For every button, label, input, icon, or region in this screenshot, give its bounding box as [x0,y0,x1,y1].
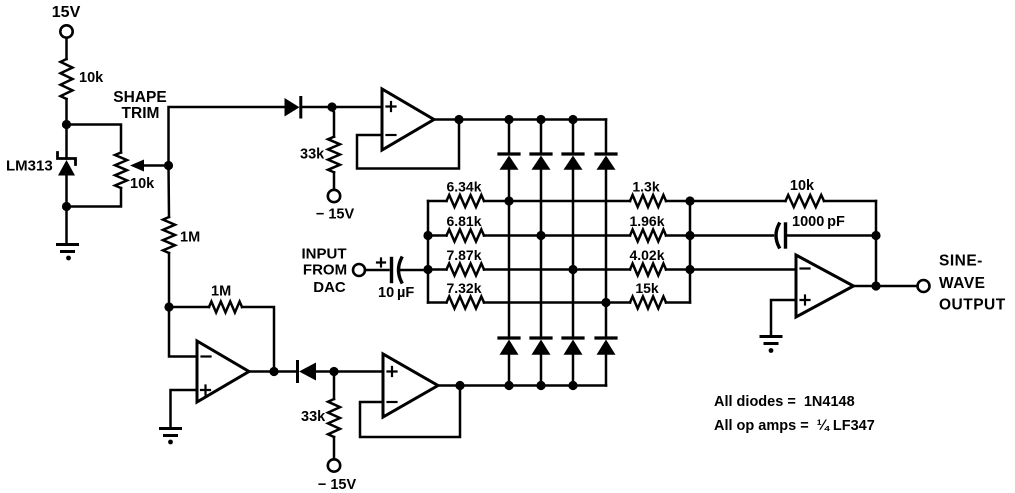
wire feedback vertical [875,201,878,286]
svg-text:OUTPUT: OUTPUT [939,297,1006,314]
row 1 wire with resistors 6.34k / 1.3k [428,195,690,207]
row 3 wire with resistors 7.87k / 4.02k [428,264,690,276]
column 1 wire with diodes [499,120,519,386]
node F U2 output [455,381,464,390]
wire U3 output to node D [249,370,274,373]
node G U1 output [454,115,463,124]
op-amp U4 [796,255,854,317]
node B [62,202,71,211]
wire 15V terminal to R1 [65,38,68,59]
wire U3 + input to ground [171,390,198,428]
svg-text:1.96k: 1.96k [629,213,664,229]
node right bus row1 [685,196,694,205]
wire U4 output [854,285,918,288]
svg-text:1M: 1M [211,284,231,300]
row 4 wire with resistors 7.32k / 15k [428,297,690,309]
op-amp U2 [383,354,438,417]
svg-text:TRIM: TRIM [122,105,160,122]
svg-text:− 15V: − 15V [316,207,355,223]
resistor R5 1M feedback [169,302,274,372]
svg-text:LM313: LM313 [6,158,53,175]
wire U4 + input to ground [771,300,796,336]
resistor R1 10k [61,59,73,99]
node H input bus [423,265,432,274]
node right bus row2 [685,231,694,240]
node row1 col1 [504,196,513,205]
svg-text:SHAPE: SHAPE [113,89,166,106]
terminal -15V top [328,190,340,202]
svg-text:1000 pF: 1000 pF [792,214,845,230]
capacitor C2 1000pF [690,224,876,247]
node right bus row3 [685,265,694,274]
node E [329,367,338,376]
svg-text:4.02k: 4.02k [629,247,664,263]
wire bottom rail [460,384,606,387]
node D [269,367,278,376]
terminal -15V bottom [328,459,340,471]
wire junction down to R3 1M [167,166,170,218]
wire junction up to shape-trim line [169,107,285,166]
svg-text:FROM: FROM [303,262,347,279]
node top rail col2 [536,115,545,124]
svg-text:33k: 33k [300,147,325,163]
wire top rail [459,118,606,121]
svg-text:1.3k: 1.3k [632,179,659,195]
node U4 output [871,281,880,290]
node row4 col4 [601,298,610,307]
node C [164,302,173,311]
node bottom rail col1 [504,381,513,390]
wire R1 to node A [65,99,68,125]
svg-text:SINE-: SINE- [939,253,983,270]
wire node down to R4 [332,107,334,137]
wire U1 output to top rail [434,118,459,121]
svg-text:INPUT: INPUT [302,246,347,263]
svg-text:10 µF: 10 µF [378,285,414,301]
wire node E to op-amp U2 + input [334,370,383,373]
node row3 col3 [568,265,577,274]
terminal sine-wave output [918,280,930,292]
potentiometer R2 10k body [115,153,127,189]
wire input terminal to C1 [365,269,389,272]
capacitor C1 10uF polarized [377,258,428,282]
wire R3 to node C [168,253,171,307]
svg-text:6.34k: 6.34k [446,179,481,195]
wire U1 feedback loop [357,120,459,169]
op-amp U1 [382,89,434,150]
node top rail col1 [504,115,513,124]
diode LM313 (zener) [58,125,76,207]
node J wiper junction [164,161,173,170]
terminal 15V [60,25,72,37]
node row2 col2 [536,231,545,240]
svg-text:7.32k: 7.32k [446,280,481,296]
svg-text:All diodes = 1N4148: All diodes = 1N4148 [714,394,855,410]
column 3 wire with diodes [563,120,583,386]
svg-text:6.81k: 6.81k [446,213,481,229]
svg-text:15k: 15k [635,280,659,296]
node feedback/cap [871,231,880,240]
node top rail col3 [568,115,577,124]
svg-text:10k: 10k [130,176,155,192]
terminal input from DAC [353,264,365,276]
resistor R6 33k [328,399,340,437]
svg-text:10k: 10k [79,70,104,86]
column 2 wire with diodes [531,120,551,386]
svg-text:10k: 10k [790,178,815,194]
svg-text:1M: 1M [180,230,200,246]
wire node E to R6 33k [333,372,336,400]
column 4 wire with diodes [596,120,616,386]
wire R4 to -15V terminal [333,172,336,190]
node A [62,120,71,129]
resistor R4 33k [328,137,340,173]
ground G3 [761,337,781,353]
svg-text:33k: 33k [301,409,326,425]
wire right bus [689,201,692,303]
ground G2 [161,429,181,445]
diode D2 [274,362,334,382]
wire U2 output to bottom rail [438,384,460,387]
resistor R3 1M [163,217,175,253]
wire U2 feedback loop [360,386,460,438]
svg-text:WAVE: WAVE [939,275,986,292]
wire node to op-amp U1 + input [332,106,382,109]
wire R6 to -15V terminal bottom [333,437,336,459]
svg-text:All op amps = ¼ LF347: All op amps = ¼ LF347 [714,418,875,434]
row 2 wire with resistors 6.81k / 1.96k [428,230,690,242]
wire potentiometer bottom to node B [67,188,122,207]
op-amp U3 [197,341,249,402]
wire left bus [427,201,430,303]
wire node B to ground [65,207,68,245]
node bottom rail col2 [536,381,545,390]
node D1/33k [327,102,336,111]
svg-text:− 15V: − 15V [318,477,357,493]
node left bus row2 [423,231,432,240]
svg-text:DAC: DAC [313,279,346,296]
ground G1 [58,245,78,261]
resistor R15 10k feedback [690,195,876,207]
svg-text:15V: 15V [52,4,81,21]
diode D1 [285,98,333,118]
wire node A to potentiometer top [67,125,122,153]
svg-text:7.87k: 7.87k [446,247,481,263]
wiper arrow of R2 [130,160,169,172]
wire node C to U3 inverting input [169,307,197,357]
node bottom rail col3 [568,381,577,390]
wire row3 to U4 inverting input [690,268,796,271]
